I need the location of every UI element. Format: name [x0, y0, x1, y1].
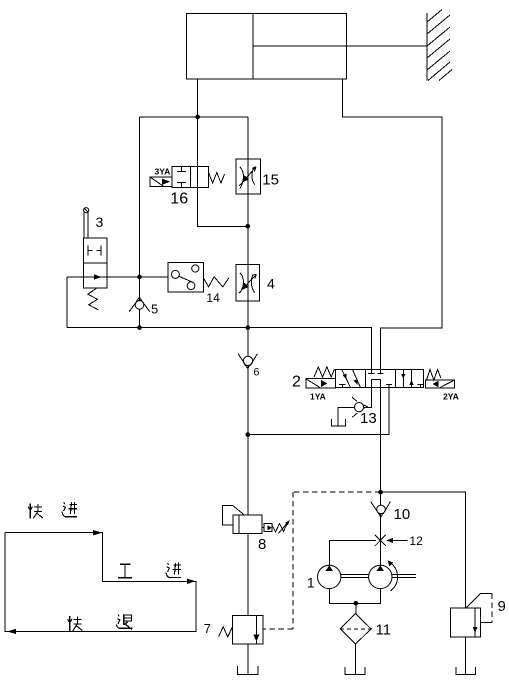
wire valve7 outlet to tank [247, 644, 249, 675]
pilot dashed line from P node to valve 7 [263, 492, 381, 629]
label 13 [360, 410, 377, 427]
label 3 [96, 214, 104, 230]
junction node dots [137, 115, 383, 606]
pressure relay 14 [168, 262, 229, 292]
directional valve 2 (4/3 solenoid valve) [306, 367, 455, 388]
text 工进 (work feed) [118, 564, 132, 578]
wire horizontal branch at y=117 [140, 116, 248, 118]
wire P line valve2 to pump [380, 388, 382, 566]
label 3YA [155, 167, 171, 177]
svg-text:10: 10 [394, 506, 411, 523]
check valve 6 [238, 354, 257, 369]
svg-text:1YA: 1YA [310, 392, 326, 402]
wire check13 to tank [338, 408, 354, 426]
throttle valve 4 (adjustable flow control) [236, 264, 259, 301]
check valve 13 [352, 397, 367, 417]
wire pump suction lines [329, 589, 380, 614]
wire main vertical line [247, 117, 249, 675]
wire left pump outlet to throttle 12 [329, 541, 376, 566]
label 7 [204, 621, 211, 636]
tank under valve 7 [238, 666, 258, 674]
label 8 [258, 536, 266, 553]
text 快退 (fast retreat) [68, 616, 83, 631]
wire filter to tank [355, 644, 357, 675]
label 2YA [443, 392, 459, 402]
svg-text:16: 16 [170, 190, 188, 207]
tank under valve 9 [456, 667, 476, 674]
travel valve 3 (roller operated) [84, 208, 108, 310]
label 9 [498, 598, 506, 615]
label 5 [151, 302, 158, 317]
text 快进 (fast forward) [28, 503, 43, 518]
svg-text:13: 13 [360, 410, 377, 427]
label 4 [267, 276, 275, 292]
label 11 [376, 622, 392, 639]
sequence valve 7 [219, 616, 263, 645]
svg-text:7: 7 [204, 621, 211, 636]
label 12 [409, 534, 423, 548]
check valve 10 [371, 502, 391, 517]
svg-text:4: 4 [267, 276, 275, 292]
label 6 [253, 367, 259, 379]
svg-text:9: 9 [498, 598, 506, 615]
wire left line down to bottom rail [139, 117, 141, 328]
wire cylinder left port down through valve 16 to node below [198, 79, 248, 226]
svg-text:2YA: 2YA [443, 392, 459, 402]
svg-text:11: 11 [376, 622, 392, 639]
svg-text:6: 6 [253, 367, 259, 379]
reducing valve 8 [222, 506, 289, 534]
throttle valve 15 (adjustable flow control) [236, 159, 260, 194]
svg-text:5: 5 [151, 302, 158, 317]
tank under filter 11 [345, 667, 365, 675]
label 16 [170, 190, 188, 207]
svg-text:12: 12 [409, 534, 423, 548]
svg-text:15: 15 [262, 172, 279, 189]
label 15 [262, 172, 279, 189]
svg-text:3YA: 3YA [155, 167, 171, 177]
wire bottom rail to valve 2 left top port [67, 328, 371, 370]
label 10 [394, 506, 411, 523]
pump 1 (double pump unit) [318, 560, 416, 590]
wall (fixed support with hatching) [427, 10, 452, 81]
wire cylinder right port to valve 2 right top port [343, 79, 443, 370]
tank under check 13 [331, 419, 345, 426]
relief valve 9 [450, 594, 492, 638]
wire branch to valve 9 [381, 492, 466, 608]
svg-text:8: 8 [258, 536, 266, 553]
check valve 5 [129, 297, 150, 312]
label 2 [292, 374, 301, 391]
wire valve9 outlet to tank [465, 637, 467, 674]
svg-text:3: 3 [96, 214, 104, 230]
cycle diagram (work cycle) [5, 530, 196, 634]
svg-text:1: 1 [307, 575, 315, 591]
filter 11 [340, 614, 371, 644]
svg-text:14: 14 [206, 291, 220, 305]
label 1YA [310, 392, 326, 402]
wire valve2 pilot port to check valve 13 [359, 388, 372, 408]
label 1 [307, 575, 315, 591]
svg-text:2: 2 [292, 374, 301, 391]
wire bypass around valve 3 [67, 277, 168, 328]
cylinder (hydraulic cylinder with piston and rod) [187, 14, 428, 80]
valve 16 (solenoid 2-position valve) [150, 166, 225, 187]
label 14 [206, 291, 220, 305]
throttle 12 (fixed orifice with arrow) [375, 535, 408, 546]
wire valve2 T port to main line [248, 388, 389, 435]
